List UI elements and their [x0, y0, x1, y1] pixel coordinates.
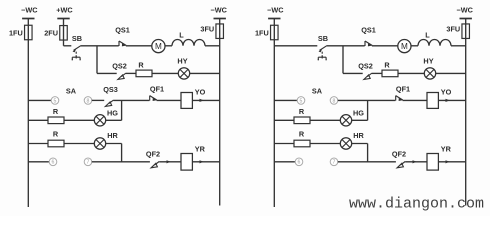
svg-text:R: R [299, 107, 305, 116]
svg-text:2FU: 2FU [44, 29, 58, 38]
svg-text:M: M [155, 42, 162, 51]
svg-text:R: R [53, 107, 59, 116]
svg-text:QS2: QS2 [358, 62, 373, 71]
svg-text:1FU: 1FU [9, 29, 23, 38]
svg-text:HY: HY [423, 57, 433, 66]
svg-text:R: R [53, 130, 59, 139]
svg-text:M: M [401, 42, 408, 51]
svg-text:3FU: 3FU [446, 25, 460, 34]
svg-text:7: 7 [87, 160, 90, 166]
svg-text:QS3: QS3 [103, 85, 118, 94]
svg-text:−WC: −WC [456, 6, 473, 15]
svg-text:1FU: 1FU [255, 29, 269, 38]
svg-text:HY: HY [177, 57, 187, 66]
svg-text:YR: YR [195, 145, 206, 154]
svg-text:6: 6 [52, 160, 55, 166]
svg-text:QS2: QS2 [112, 62, 127, 71]
svg-text:−WC: −WC [210, 6, 227, 15]
svg-text:HG: HG [353, 109, 364, 118]
svg-text:R: R [299, 130, 305, 139]
svg-text:SB: SB [72, 34, 82, 43]
svg-text:R: R [138, 61, 144, 70]
svg-text:L: L [179, 31, 184, 40]
svg-text:YO: YO [441, 88, 452, 97]
svg-text:SB: SB [318, 34, 328, 43]
svg-text:8: 8 [87, 98, 90, 104]
svg-text:QF1: QF1 [150, 85, 164, 94]
svg-text:YO: YO [195, 88, 206, 97]
svg-text:−WC: −WC [267, 6, 284, 15]
svg-text:+WC: +WC [56, 6, 73, 15]
svg-text:QS1: QS1 [115, 26, 130, 35]
svg-text:QS1: QS1 [361, 26, 376, 35]
svg-text:L: L [425, 31, 430, 40]
svg-text:SA: SA [312, 87, 323, 96]
svg-text:3FU: 3FU [200, 25, 214, 34]
svg-text:QF2: QF2 [146, 150, 160, 159]
svg-text:YR: YR [441, 145, 452, 154]
svg-text:HR: HR [107, 131, 118, 140]
svg-text:www.diangon.com: www.diangon.com [349, 196, 484, 213]
svg-text:7: 7 [333, 160, 336, 166]
svg-text:SA: SA [66, 87, 77, 96]
svg-text:HR: HR [353, 131, 364, 140]
svg-text:5: 5 [54, 98, 57, 104]
svg-text:−WC: −WC [21, 6, 38, 15]
svg-text:HG: HG [107, 109, 118, 118]
svg-text:8: 8 [333, 98, 336, 104]
svg-text:QF1: QF1 [396, 85, 410, 94]
svg-text:6: 6 [298, 160, 301, 166]
svg-text:QF2: QF2 [392, 150, 406, 159]
svg-text:R: R [384, 61, 390, 70]
svg-text:5: 5 [300, 98, 303, 104]
